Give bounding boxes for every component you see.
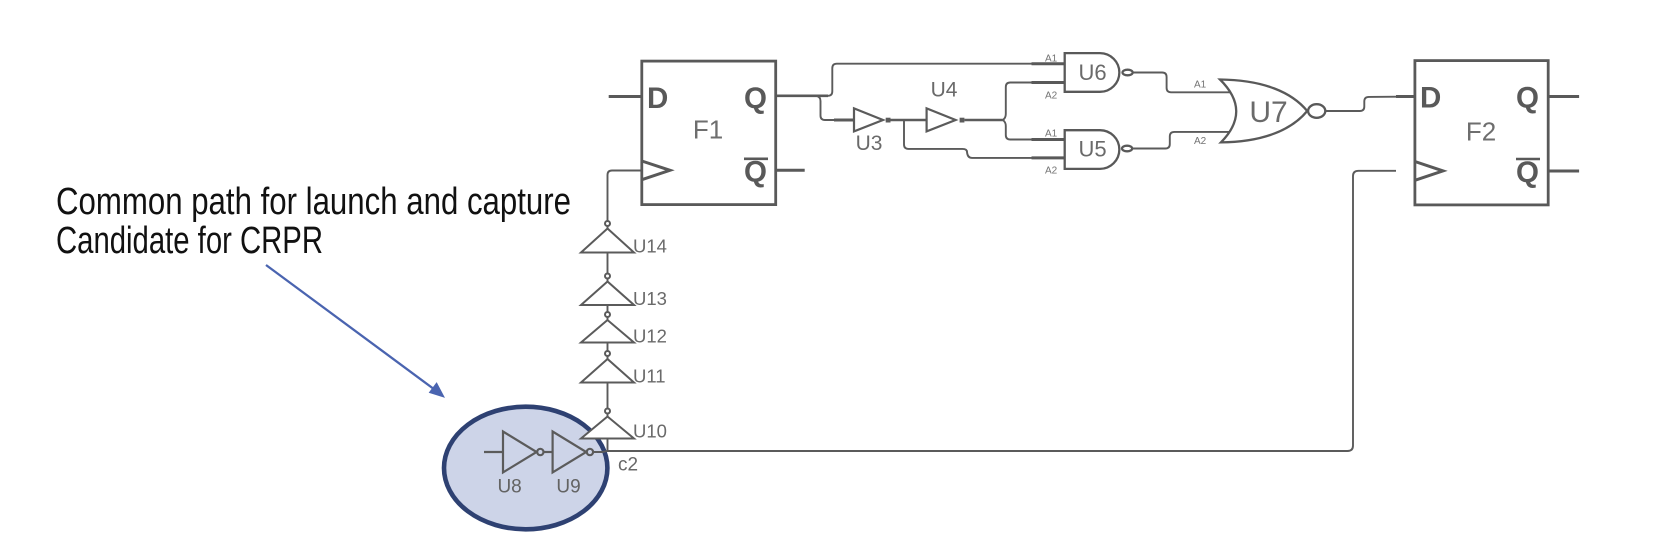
wire: long bottom net c2 from U9 to F2 clock — [593, 171, 1396, 452]
inverter U12 — [581, 312, 634, 343]
annotation text — [56, 181, 571, 262]
buffer U4 — [927, 108, 965, 131]
wire U6 out to U7 A1 — [1133, 73, 1233, 93]
F1 Qbar stub — [776, 169, 805, 172]
svg-text:Q: Q — [1516, 156, 1539, 189]
svg-text:F2: F2 — [1466, 117, 1496, 147]
wire: chain vertical from F1 clock down — [608, 171, 642, 452]
F2 Qbar stub — [1548, 170, 1579, 173]
svg-text:U7: U7 — [1249, 96, 1287, 129]
wire U3->U4 — [891, 119, 927, 121]
svg-text:Q: Q — [744, 82, 767, 115]
svg-text:A1: A1 — [1194, 80, 1207, 91]
svg-text:Candidate for CRPR: Candidate for CRPR — [56, 220, 323, 262]
svg-text:U5: U5 — [1078, 137, 1106, 162]
wire U4 output to split — [964, 119, 1002, 121]
wire: branch down to U3 — [816, 96, 854, 120]
svg-text:D: D — [1420, 82, 1441, 115]
buffer U3 — [834, 108, 891, 131]
svg-text:A2: A2 — [1045, 166, 1058, 177]
F1 clock triangle — [642, 161, 670, 180]
F2 D stub — [1396, 95, 1415, 98]
svg-text:U8: U8 — [497, 477, 521, 498]
svg-text:U12: U12 — [633, 326, 667, 347]
annotation arrow — [266, 265, 444, 397]
inverter U9 — [553, 432, 594, 473]
svg-text:U4: U4 — [931, 79, 958, 102]
svg-text:A1: A1 — [1045, 54, 1058, 65]
F1 D input stub — [609, 95, 642, 98]
svg-text:U6: U6 — [1078, 60, 1106, 85]
svg-text:Q: Q — [744, 156, 767, 189]
svg-text:U13: U13 — [633, 288, 667, 309]
wire: from U3 output down to U5 A2 — [904, 120, 1065, 158]
NOR U7 — [1220, 80, 1325, 143]
wire U8->U9 — [544, 451, 553, 453]
wire: branch up to U6 A1 (top line) — [828, 64, 1065, 96]
svg-text:U14: U14 — [633, 236, 667, 257]
NAND U6 — [1032, 53, 1133, 92]
wire: F1 Q output — [776, 95, 828, 98]
svg-text:D: D — [647, 82, 668, 115]
NAND U5 — [1032, 130, 1133, 169]
svg-text:U3: U3 — [856, 132, 883, 155]
flip-flop F2 box — [1415, 61, 1548, 205]
inverter U8 — [503, 432, 544, 473]
inverter U13 — [581, 274, 634, 306]
F2 Q stub — [1548, 95, 1579, 98]
svg-text:A2: A2 — [1045, 91, 1058, 102]
wire: input stub to U8 — [484, 451, 503, 453]
inverter U10 — [581, 409, 634, 439]
wire: split down to U5 A1 — [1003, 120, 1065, 140]
svg-text:A2: A2 — [1194, 136, 1207, 147]
flip-flop F1 box — [642, 61, 776, 205]
svg-text:F1: F1 — [693, 115, 723, 145]
svg-text:A1: A1 — [1045, 129, 1058, 140]
wire: split up to U6 A2 — [1003, 83, 1065, 121]
highlight ellipse — [444, 407, 607, 530]
svg-text:U9: U9 — [556, 477, 580, 498]
inverter U11 — [581, 351, 634, 383]
wire U7 out to F2 D — [1325, 97, 1415, 112]
svg-text:U10: U10 — [633, 421, 667, 442]
svg-text:Common path for launch and cap: Common path for launch and capture — [56, 181, 571, 223]
wire U5 out to U7 A2 — [1132, 132, 1233, 149]
svg-text:Q: Q — [1516, 82, 1539, 115]
F2 clock triangle — [1415, 162, 1443, 181]
inverter U14 — [581, 221, 634, 253]
svg-text:c2: c2 — [618, 455, 638, 476]
svg-text:U11: U11 — [633, 366, 666, 387]
